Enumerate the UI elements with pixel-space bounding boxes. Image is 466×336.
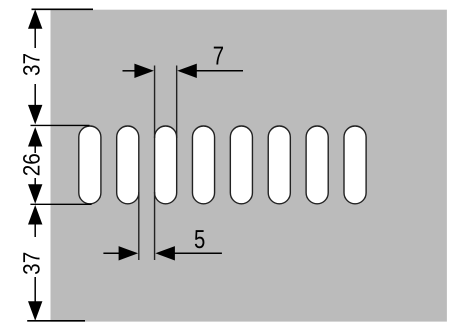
dimension 5: left tail line (103, 252, 119, 254)
slot 8 (344, 126, 366, 204)
dimension line 26: arrow down (28, 184, 42, 204)
extension line 7 left (slot 3 left edge) (154, 66, 156, 139)
dimension 5: right tail line (174, 252, 222, 254)
dimension line 26: line above text (34, 146, 36, 153)
plate (gray sheet) (51, 10, 447, 322)
extension line 5 right (slot 3 left edge) (154, 192, 156, 260)
svg-text:26: 26 (19, 153, 45, 176)
dimension line 37 upper: arrow down (28, 105, 42, 125)
extension line bottom (tick for 37 lower) (27, 320, 85, 322)
dimension 7: left arrow pointing right (134, 64, 154, 78)
dimension line 26: arrow up (28, 127, 42, 147)
dimension 7: left tail line (123, 70, 136, 72)
dimension line 37 lower: arrow down (28, 301, 42, 321)
svg-text:7: 7 (213, 41, 224, 71)
extension line 7 right (slot 3 right edge) (176, 66, 178, 139)
slot 2 (117, 126, 139, 204)
dimension line 37 lower: arrow up (28, 205, 42, 225)
dimension line 37 lower: line below text (34, 277, 36, 302)
dimension 5: right arrow pointing left (155, 246, 175, 260)
svg-text:37: 37 (19, 252, 45, 275)
slot 4 (192, 126, 214, 204)
extension line at slot bottoms (tick between 26 and 37) (30, 203, 91, 205)
dimension line 26: line below text (34, 178, 36, 185)
slot 1 (79, 126, 101, 204)
slot 6 (268, 126, 290, 204)
slot 5 (230, 126, 252, 204)
dimension line 37 upper: line above text (34, 28, 36, 48)
dimension line 37 upper: arrow up (28, 9, 42, 29)
slot 3 (155, 126, 177, 204)
dimension 7: right arrow pointing left (177, 64, 197, 78)
slot 7 (306, 126, 328, 204)
svg-text:5: 5 (194, 224, 205, 254)
svg-text:37: 37 (19, 53, 45, 76)
dimension 5: left arrow pointing right (119, 246, 139, 260)
dimension line 37 upper: line below text (34, 84, 36, 105)
dimension 7: right tail line (196, 70, 243, 72)
extension line 5 left (slot 2 right edge) (138, 192, 140, 260)
extension line top (tick for 37 upper) (32, 8, 94, 10)
extension line at slot tops (tick between 37 and 26) (31, 124, 90, 126)
dimension line 37 lower: line above text (34, 224, 36, 237)
